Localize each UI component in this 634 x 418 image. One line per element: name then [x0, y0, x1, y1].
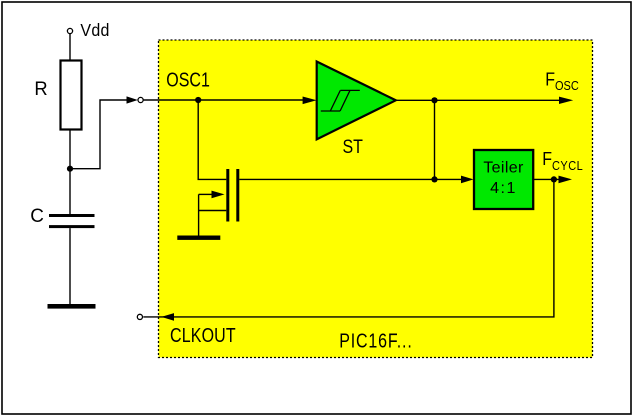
svg-text:C: C — [30, 206, 44, 227]
arrow F_OSC output — [559, 97, 573, 104]
svg-text:PIC16F...: PIC16F... — [339, 330, 412, 352]
svg-text:4:1: 4:1 — [490, 180, 517, 197]
wire divider output down to CLKOUT — [143, 179, 554, 317]
terminal CLKOUT pin — [137, 314, 142, 319]
wire divider output to F_CYCL — [533, 178, 560, 180]
wire Vdd to resistor R — [69, 34, 71, 61]
svg-text:Vdd: Vdd — [80, 20, 109, 40]
svg-text:R: R — [34, 78, 47, 99]
terminal OSC1 pin — [138, 97, 143, 102]
svg-text:Teiler: Teiler — [483, 159, 524, 176]
gate wire with arrow — [199, 193, 213, 195]
svg-text:ST: ST — [343, 136, 364, 158]
arrow F_CYCL output — [559, 176, 573, 184]
hysteresis symbol — [321, 90, 360, 111]
ground (below C) — [48, 304, 96, 309]
svg-text:OSC1: OSC1 — [166, 69, 210, 91]
wire ST output down to divider input — [434, 100, 436, 179]
arrow CLKOUT (pointing left) — [161, 313, 174, 321]
wire gate leg vertical — [198, 194, 200, 235]
junction node on divider output — [551, 176, 557, 182]
capacitor C — [49, 214, 95, 228]
PIC16F chip boundary (yellow dashed region) — [159, 40, 593, 358]
wire ST output to F_OSC — [396, 99, 561, 101]
wire plate output to divider line — [239, 178, 464, 180]
transistor Q1 (internal feedback element, capacitor-like plates) — [226, 169, 239, 222]
arrow into divider — [461, 176, 474, 184]
arrow into Schmitt trigger — [303, 97, 317, 105]
junction node on OSC1 line — [195, 97, 201, 103]
divider block Teiler 4:1 — [474, 150, 533, 209]
wire capacitor to ground — [69, 228, 71, 304]
wire junction down to feedback element — [198, 100, 226, 179]
arrow into OSC1 pin — [127, 96, 138, 103]
junction node at resistor bottom — [67, 166, 73, 172]
junction node on divider input line — [431, 176, 437, 182]
terminal Vdd — [67, 28, 72, 33]
ground (below transistor) — [177, 236, 220, 240]
wire OSC1 pin to Schmitt trigger input — [144, 99, 306, 101]
resistor R — [61, 61, 82, 130]
op-amp U1 Schmitt trigger ST — [317, 62, 396, 140]
wire resistor to capacitor — [69, 130, 71, 215]
gate arrow — [212, 191, 225, 199]
wire junction to OSC1 pin — [70, 100, 130, 169]
svg-text:CLKOUT: CLKOUT — [170, 324, 236, 346]
wire lower leg to plate — [199, 210, 227, 212]
junction node on ST output — [431, 97, 437, 103]
